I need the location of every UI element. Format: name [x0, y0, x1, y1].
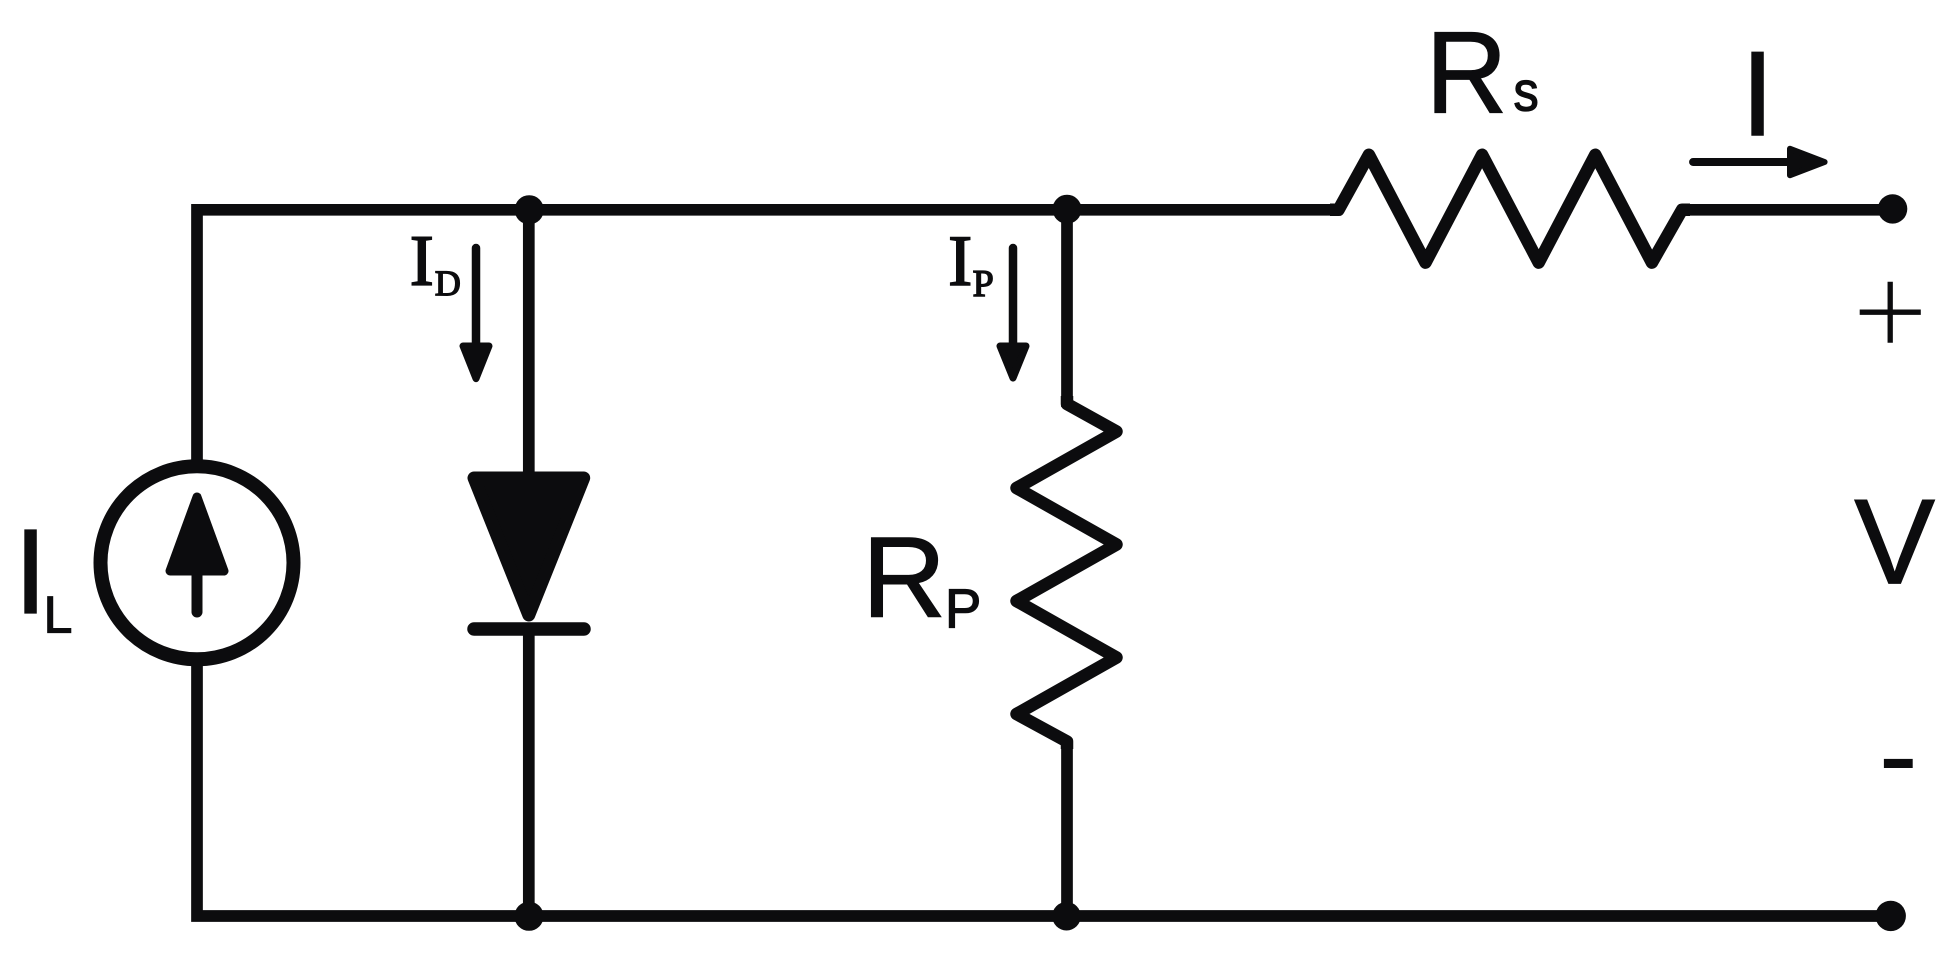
diode D1 triangle	[474, 478, 584, 615]
diode D1 cathode bar	[474, 622, 584, 636]
label I output current	[1752, 52, 1763, 135]
current arrow ID	[463, 248, 489, 379]
label ID	[412, 237, 431, 284]
label Rp	[872, 538, 941, 617]
label V	[1855, 500, 1935, 583]
node dot right terminal +	[1878, 194, 1907, 223]
wire left branch below source to bottom-left corner and bottom wire	[197, 663, 1891, 916]
wire Rs to right terminal	[1679, 204, 1893, 216]
wire diode branch lower	[523, 629, 535, 916]
wire diode branch upper	[523, 210, 535, 476]
current arrow I	[1693, 149, 1825, 175]
label Rs	[1435, 32, 1502, 112]
wire Rp branch lower	[1061, 740, 1073, 916]
resistor Rp zigzag	[1017, 396, 1117, 749]
label IP	[951, 238, 970, 285]
label IL	[25, 530, 36, 613]
label - terminal	[1884, 759, 1913, 768]
wire top-left corner: left branch up + top wire to Rs	[197, 210, 1341, 463]
current source IL circle	[101, 466, 294, 659]
resistor Rs zigzag	[1330, 155, 1690, 263]
label + terminal	[1860, 282, 1921, 343]
wire Rp branch upper	[1061, 210, 1073, 407]
node dot right terminal -	[1876, 901, 1906, 931]
node dot Rp bottom	[1052, 902, 1081, 931]
current source IL arrow	[170, 497, 224, 612]
node dot Rp top	[1053, 195, 1082, 224]
current arrow IP	[1000, 248, 1026, 378]
node dot diode bottom	[514, 902, 543, 931]
node dot diode top	[515, 195, 544, 224]
